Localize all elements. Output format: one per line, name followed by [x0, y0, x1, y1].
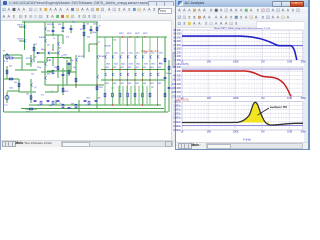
- wire: [19, 26, 25, 28]
- wire col44 low: [44, 58, 46, 85]
- wire: [57, 35, 59, 58]
- group delay filled peak: [237, 102, 270, 125]
- svg-text:10M: 10M: [287, 61, 292, 64]
- svg-text:-90.000: -90.000: [173, 79, 182, 82]
- wire bottom rail 1: [29, 104, 161, 106]
- capacitor C12: [95, 101, 98, 102]
- svg-text:30M: 30M: [301, 97, 306, 100]
- resistor RE7: [149, 93, 151, 97]
- resistor R13: [62, 88, 64, 92]
- transistor QO1: [105, 55, 107, 58]
- wire: [89, 43, 97, 45]
- resistor R24: [62, 104, 64, 108]
- wire: [52, 58, 54, 66]
- wire: [19, 91, 36, 93]
- wire col 96 tall: [96, 22, 98, 108]
- wire left ground bottom: [4, 111, 37, 113]
- transistor QP2: [113, 73, 115, 76]
- svg-text:1.600u: 1.600u: [173, 100, 181, 103]
- wire out col 149: [149, 55, 151, 105]
- junction top rail: [129, 36, 130, 37]
- 0dB cursor line: [182, 45, 303, 47]
- capacitor C3: [70, 29, 73, 30]
- wire: [31, 69, 37, 71]
- junction top rail: [144, 36, 145, 37]
- junction rail80: [112, 79, 113, 80]
- svg-text:0.800u: 0.800u: [173, 117, 181, 120]
- AC Analysis title: [185, 1, 205, 5]
- capacitor C8: [47, 101, 50, 102]
- svg-text:30M: 30M: [301, 61, 306, 64]
- junction top rail: [137, 36, 138, 37]
- junction rail69: [112, 69, 113, 70]
- junction rail69: [104, 69, 105, 70]
- svg-text:-135.000: -135.000: [171, 83, 181, 86]
- wire: [90, 26, 92, 34]
- svg-text:0.600u: 0.600u: [173, 121, 181, 124]
- svg-text:30.000: 30.000: [173, 40, 181, 43]
- wire bottom rail 3: [36, 111, 168, 113]
- transistor QO2: [113, 55, 115, 58]
- junction rail80: [142, 79, 143, 80]
- junction rail80: [149, 79, 150, 80]
- wire: [70, 58, 72, 64]
- resistor R2: [6, 70, 8, 74]
- svg-text:48.000: 48.000: [173, 29, 181, 32]
- svg-text:выброс ПХ: выброс ПХ: [270, 105, 288, 109]
- wire out col 111: [112, 55, 114, 105]
- wire out col 134: [134, 55, 136, 105]
- wire: [7, 90, 19, 92]
- wire: [3, 78, 19, 80]
- wire: [62, 35, 64, 44]
- svg-text:10M: 10M: [287, 97, 292, 100]
- svg-text:10K: 10K: [207, 61, 212, 64]
- wire: [45, 34, 63, 36]
- wire: [68, 62, 70, 76]
- wire: [41, 71, 53, 73]
- resistor R3: [9, 78, 13, 80]
- junction rail69: [149, 69, 150, 70]
- wire: [57, 85, 59, 92]
- title icon: [3, 1, 7, 5]
- toolbars: [176, 7, 308, 15]
- wire loop bottom: [47, 70, 71, 72]
- capacitor C6: [68, 64, 71, 65]
- right window toolbar icons + plots drawn in full-page SVG: [0, 0, 307, 150]
- wire left ground rail: [3, 55, 5, 112]
- transistor Q8: [48, 51, 50, 54]
- resistor RE6: [142, 93, 144, 97]
- wire top-right rail: [97, 36, 167, 38]
- wire: [70, 25, 72, 33]
- svg-text:42.000: 42.000: [173, 33, 181, 36]
- wire mid rail 85: [45, 84, 104, 86]
- svg-text:10M: 10M: [287, 131, 292, 134]
- junction rail80: [127, 79, 128, 80]
- wire out col 156: [157, 55, 159, 105]
- svg-text:10K: 10K: [207, 97, 212, 100]
- svg-text:45.000: 45.000: [173, 66, 181, 69]
- wire: [6, 53, 8, 60]
- right scrollbar strip: [304, 21, 308, 143]
- baseline emphasized blue line: [182, 125, 303, 127]
- svg-text:100K: 100K: [233, 61, 239, 64]
- wire col 55 low: [55, 100, 57, 105]
- phase grid: [190, 67, 302, 97]
- transistor QO8: [158, 55, 160, 58]
- wire: [45, 91, 58, 93]
- capacitor C2: [62, 28, 65, 29]
- wire: [48, 52, 58, 54]
- junction bottom: [142, 104, 143, 105]
- transistor QO3: [120, 55, 122, 58]
- resistor R28: [164, 93, 166, 97]
- junction rail69: [127, 69, 128, 70]
- wire: [33, 56, 35, 62]
- transistor QP3: [120, 73, 122, 76]
- svg-text:0.400u: 0.400u: [173, 125, 181, 128]
- svg-text:0.000: 0.000: [175, 70, 182, 73]
- gain grid: [190, 30, 302, 60]
- svg-text:12.000: 12.000: [173, 51, 181, 54]
- wire bottom rail 2: [21, 108, 164, 110]
- wire: [30, 93, 32, 103]
- junction bottom: [112, 104, 113, 105]
- wire: [57, 58, 59, 78]
- capacitor C10: [68, 108, 71, 109]
- svg-text:100K: 100K: [233, 97, 239, 100]
- diode D1: [37, 52, 39, 54]
- wire bundle 4: [134, 86, 136, 104]
- svg-text:F (Hz): F (Hz): [243, 137, 251, 141]
- toolbar 1: [1, 6, 176, 14]
- svg-text:10K: 10K: [207, 131, 212, 134]
- svg-text:-180.000: -180.000: [171, 87, 181, 90]
- junction rail80: [119, 79, 120, 80]
- wire: [62, 68, 64, 95]
- wire right col 164: [164, 37, 166, 112]
- wire top rail left: [22, 21, 98, 23]
- capacitor C1: [52, 31, 55, 32]
- delay plot box: [182, 102, 303, 131]
- wire out col 126: [127, 55, 129, 105]
- resistor R15: [96, 86, 98, 90]
- svg-text:1K: 1K: [181, 131, 184, 134]
- wire: [88, 44, 90, 52]
- wire out col 119: [119, 55, 121, 105]
- wire out col 104: [104, 55, 106, 105]
- wire drop x156: [157, 37, 159, 55]
- wire: [30, 79, 32, 92]
- junction rail69: [142, 69, 143, 70]
- annotation vybros PH: [257, 108, 269, 115]
- transistor QO7: [150, 55, 152, 58]
- resistor RE1: [104, 93, 106, 97]
- gain curve db(v(out)): [182, 36, 297, 60]
- node: [52, 49, 53, 50]
- group delay curve: [182, 102, 303, 125]
- wire: [52, 22, 54, 36]
- wire bundle 2: [126, 86, 128, 104]
- transistor Q3: [45, 27, 47, 30]
- wire bundle 0: [118, 86, 120, 104]
- wire: [66, 60, 68, 85]
- wire: [67, 71, 76, 73]
- svg-text:18.000: 18.000: [173, 48, 181, 51]
- 0deg emphasized line: [182, 68, 303, 70]
- svg-text:100K: 100K: [233, 131, 239, 134]
- svg-text:6.000: 6.000: [175, 55, 182, 58]
- min / max / close buttons: [272, 1, 283, 7]
- transistor Q9: [58, 51, 60, 54]
- tab bar + h scrollbar: [1, 140, 176, 147]
- svg-text:-225.000: -225.000: [171, 91, 181, 94]
- wire col 78 low: [78, 100, 80, 112]
- transistor Q11: [45, 76, 47, 79]
- wire: [18, 79, 20, 92]
- transistor Q1: [25, 25, 27, 28]
- node: [44, 49, 45, 50]
- wire: [52, 44, 54, 50]
- transistor Q6: [31, 59, 33, 62]
- wire: [19, 40, 25, 42]
- resistor R29: [168, 66, 170, 70]
- wire: [6, 66, 8, 79]
- svg-text:1M: 1M: [261, 131, 264, 134]
- transistor QP7: [150, 73, 152, 76]
- wire drop x141: [142, 37, 144, 55]
- transistor QP5: [135, 73, 137, 76]
- junction rail69: [119, 69, 120, 70]
- resistor RE5: [134, 93, 136, 97]
- wire col 83: [83, 22, 85, 58]
- wire input: [3, 54, 22, 56]
- wire out col 141: [142, 55, 144, 105]
- resistor R4: [18, 83, 20, 87]
- delay grid: [190, 102, 302, 131]
- source V2: [5, 96, 9, 100]
- wire: [37, 61, 45, 63]
- transistor Q12: [76, 58, 78, 61]
- resistor R23: [52, 101, 54, 105]
- wire: [63, 57, 71, 59]
- resistor R5: [33, 47, 35, 51]
- toolbar 2: [1, 13, 176, 21]
- junction mid rail: [75, 84, 76, 85]
- capacitor C13: [164, 78, 167, 79]
- vertical scrollbar: [171, 20, 177, 140]
- resistor R7: [83, 25, 85, 29]
- wire Q1 column: [24, 21, 26, 50]
- wire: [13, 57, 21, 59]
- wire: [33, 44, 35, 56]
- window buttons: [148, 1, 157, 7]
- junction rail69: [157, 69, 158, 70]
- resistor R8: [83, 32, 85, 36]
- wire: [26, 63, 31, 65]
- capacitor C7: [34, 101, 37, 102]
- title text: [9, 1, 149, 6]
- wire src col: [6, 92, 8, 103]
- wire bundle 1: [122, 86, 124, 104]
- wire drop x104: [104, 37, 106, 55]
- resistor R21: [29, 108, 33, 110]
- resistor R11: [57, 66, 59, 70]
- svg-text:1M: 1M: [261, 97, 264, 100]
- junction rail80: [134, 79, 135, 80]
- resistor R14: [75, 78, 77, 82]
- transistor QO4: [128, 55, 130, 58]
- resistor R27: [164, 58, 166, 62]
- wire drop x164: [164, 37, 166, 55]
- wire: [25, 108, 37, 110]
- wire: [30, 55, 32, 67]
- transistor Q2: [25, 39, 27, 42]
- svg-text:36.000: 36.000: [173, 36, 181, 39]
- svg-text:24.000: 24.000: [173, 44, 181, 47]
- wire bundle 6: [142, 86, 144, 104]
- junction top rail: [122, 36, 123, 37]
- wire loop left: [46, 58, 48, 63]
- capacitor C4: [90, 30, 93, 31]
- resistor R26: [88, 101, 90, 105]
- capacitor C14: [168, 88, 171, 89]
- resistor RE2: [112, 93, 114, 97]
- transistor Q10: [45, 62, 47, 65]
- right title bar: [176, 0, 308, 8]
- wire: [15, 69, 31, 71]
- transistor QP4: [128, 73, 130, 76]
- junction rail69: [134, 69, 135, 70]
- resistor R9: [96, 27, 98, 31]
- capacitor C11: [84, 101, 87, 102]
- transistor Q5: [58, 42, 60, 45]
- wire drop x149: [149, 37, 151, 55]
- transistor QP8: [158, 73, 160, 76]
- transistor QP1: [105, 73, 107, 76]
- svg-text:-45.000: -45.000: [173, 74, 182, 77]
- svg-text:1M: 1M: [261, 61, 264, 64]
- wire loop right: [70, 58, 72, 72]
- phase plot box: [182, 67, 303, 97]
- wire bundle 3: [130, 86, 132, 104]
- capacitor C5: [62, 75, 65, 76]
- resistor RE4: [127, 93, 129, 97]
- transistor QO5: [135, 55, 137, 58]
- schematic canvas: [1, 20, 172, 140]
- junction bottom: [157, 104, 158, 105]
- wire: [168, 60, 170, 112]
- wire: [37, 52, 45, 54]
- wire: [21, 55, 23, 70]
- resistor R1: [9, 57, 13, 59]
- wire: [62, 22, 64, 32]
- resistor R10: [52, 70, 54, 74]
- wire col 44: [44, 22, 46, 58]
- resistor R12: [68, 70, 70, 74]
- wire drop x111: [112, 37, 114, 55]
- wire drop x119: [119, 37, 121, 55]
- resistor RE3: [119, 93, 121, 97]
- node: [96, 43, 97, 44]
- wire loop top: [47, 57, 71, 59]
- source V1: [5, 55, 9, 59]
- wire rail 69: [101, 69, 165, 71]
- resistor R25: [75, 104, 77, 108]
- wire rail 80: [101, 79, 165, 81]
- transistor Q13: [97, 55, 99, 58]
- transistor Q4: [45, 39, 47, 42]
- wire bundle 7: [146, 86, 148, 104]
- phase curve ph(v(out)): [182, 71, 291, 96]
- svg-text:1.400u: 1.400u: [173, 104, 181, 107]
- wire drop x126: [127, 37, 129, 55]
- tab bar bottom: [176, 142, 308, 149]
- left window title bar: [1, 0, 176, 7]
- AC Analysis icon: [178, 1, 183, 6]
- wire drop x134: [134, 37, 136, 55]
- transistor Q7: [31, 83, 33, 86]
- resistor R20: [30, 96, 32, 100]
- junction mid rail: [96, 84, 97, 85]
- resistor R22: [40, 101, 42, 105]
- svg-text:1.000u: 1.000u: [173, 113, 181, 116]
- wire bundle 5: [138, 86, 140, 104]
- svg-text:1.200u: 1.200u: [173, 109, 181, 112]
- gain plot box: [182, 30, 303, 60]
- transistor QP6: [143, 73, 145, 76]
- transistor Q14: [97, 75, 99, 78]
- svg-text:30M: 30M: [301, 131, 306, 134]
- capacitor C9: [57, 101, 60, 102]
- transistor QO6: [143, 55, 145, 58]
- junction bottom: [127, 104, 128, 105]
- wire col 75: [75, 55, 77, 88]
